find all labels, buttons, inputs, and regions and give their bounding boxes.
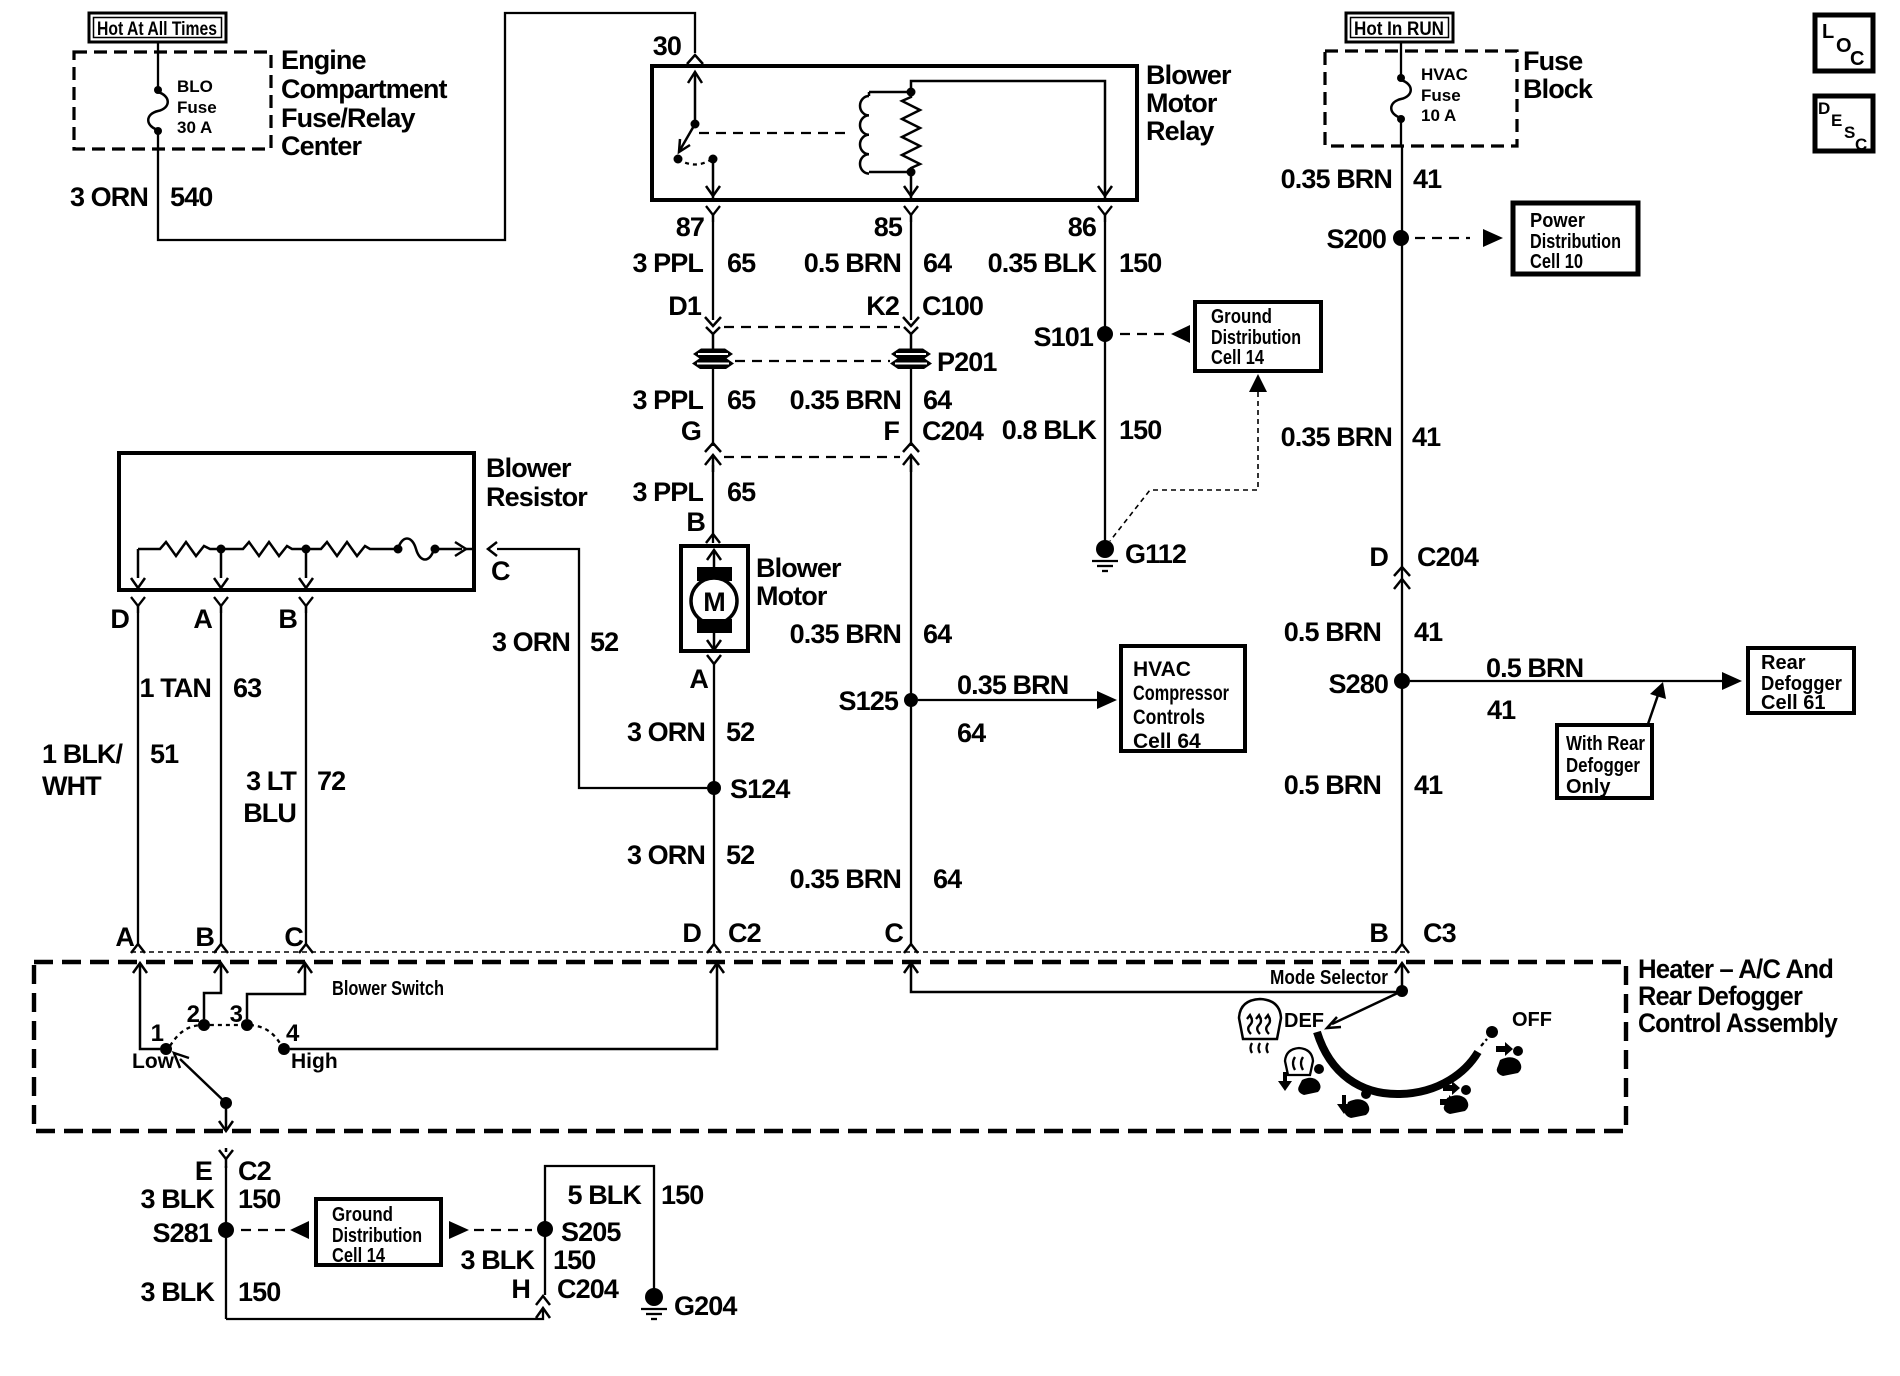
Ground Distribution Cell 14 box (upper): [1195, 302, 1321, 371]
connector C C2 (chevron): [299, 944, 313, 953]
Engine Compartment Fuse/Relay Center dashed box: [74, 52, 271, 149]
svg-text:K2: K2: [866, 291, 899, 321]
label Mode Selector: [1270, 967, 1388, 989]
label pin B / C3: [1369, 918, 1456, 948]
wire 0.5 BRN 64 (pin 85 to K2): [910, 215, 912, 320]
svg-text:H: H: [511, 1274, 530, 1304]
svg-text:Mode Selector: Mode Selector: [1270, 967, 1388, 989]
label pin G: [681, 416, 701, 446]
Heater A/C and Rear Defogger Control Assembly dashed box: [34, 962, 1626, 1131]
connector B C3 (chevron): [1395, 944, 1409, 953]
wire 3 ORN 52 (motor A to S124): [713, 664, 715, 944]
svg-text:0.35 BRN: 0.35 BRN: [1281, 422, 1392, 452]
connector A C2 (chevron): [131, 944, 145, 953]
svg-text:0.5 BRN: 0.5 BRN: [1486, 653, 1583, 683]
dashed reference ground distribution to G112: [1110, 374, 1267, 541]
svg-text:52: 52: [590, 627, 618, 657]
svg-text:Fuse: Fuse: [1421, 86, 1461, 105]
label 3 ORN 540: [70, 182, 212, 212]
label switch pin C: [284, 922, 303, 952]
svg-text:85: 85: [874, 212, 903, 242]
dashed reference ground distribution to S205: [449, 1221, 532, 1239]
svg-text:C2: C2: [238, 1156, 271, 1186]
label 0.5 BRN 41 (lower): [1284, 770, 1443, 800]
svg-text:Compressor: Compressor: [1133, 682, 1229, 705]
svg-text:B: B: [195, 922, 214, 952]
svg-text:Blower: Blower: [1146, 60, 1232, 90]
svg-text:F: F: [883, 416, 899, 446]
LOC reference box: [1815, 15, 1873, 71]
connector Y at resistor pin B: [299, 597, 313, 613]
label pin 87: [676, 212, 704, 242]
svg-text:Rear: Rear: [1761, 652, 1806, 674]
svg-text:52: 52: [726, 840, 754, 870]
arrow from With Rear Defogger Only to wire: [1648, 682, 1666, 724]
blower motor box: [681, 546, 748, 651]
svg-text:S200: S200: [1327, 224, 1386, 254]
label pin A: [689, 664, 708, 694]
label pin 30: [653, 31, 681, 61]
connector Y at pin 86: [1098, 206, 1112, 222]
svg-text:HVAC: HVAC: [1133, 658, 1191, 681]
svg-text:5 BLK: 5 BLK: [567, 1180, 642, 1210]
svg-text:C3: C3: [1423, 918, 1457, 948]
label OFF: [1512, 1009, 1552, 1031]
svg-text:3 BLK: 3 BLK: [460, 1245, 535, 1275]
svg-text:S205: S205: [561, 1217, 621, 1247]
svg-text:65: 65: [727, 385, 756, 415]
label box "Hot At All Times": [89, 13, 226, 42]
icon floor mode: [1337, 1089, 1371, 1118]
label Blower Resistor: [486, 453, 588, 512]
svg-text:0.5 BRN: 0.5 BRN: [1284, 617, 1381, 647]
label S281: [153, 1218, 213, 1248]
label S101: [1034, 322, 1094, 352]
svg-text:Distribution: Distribution: [1211, 327, 1301, 349]
svg-text:OFF: OFF: [1512, 1009, 1552, 1031]
svg-text:Controls: Controls: [1133, 706, 1205, 729]
label contact 1: [151, 1020, 164, 1047]
svg-text:30 A: 30 A: [177, 118, 212, 137]
label pin E / C2: [195, 1156, 271, 1186]
wire 1 TAN 63: [220, 606, 222, 944]
connector Y at pin 87: [706, 206, 720, 222]
svg-text:150: 150: [238, 1184, 280, 1214]
svg-text:C204: C204: [557, 1274, 619, 1304]
svg-text:87: 87: [676, 212, 704, 242]
svg-text:65: 65: [727, 477, 756, 507]
fuse BLO 30 A: [148, 42, 168, 149]
svg-text:S101: S101: [1034, 322, 1094, 352]
wire 1 BLK/WHT 51: [137, 606, 139, 944]
label 3 ORN 52: [492, 627, 618, 657]
label pin A: [193, 604, 212, 634]
svg-text:S125: S125: [839, 686, 899, 716]
svg-text:0.35 BRN: 0.35 BRN: [790, 864, 901, 894]
svg-text:3 ORN: 3 ORN: [627, 840, 705, 870]
connector at motor pin B: [706, 534, 720, 543]
resistor tap A: [214, 549, 228, 588]
svg-text:G: G: [681, 416, 701, 446]
svg-text:3 ORN: 3 ORN: [627, 717, 705, 747]
svg-text:A: A: [193, 604, 212, 634]
label 1 BLK/WHT 51: [42, 739, 179, 801]
wire 3 BLK 150 (S281 to H): [226, 1308, 543, 1319]
svg-text:3 PPL: 3 PPL: [632, 477, 703, 507]
label 0.35 BRN 41: [1281, 164, 1442, 194]
connector line C204 (dashed): [724, 456, 900, 458]
svg-text:D1: D1: [668, 291, 702, 321]
label pin D: [110, 604, 129, 634]
svg-text:S280: S280: [1329, 669, 1388, 699]
connector at resistor pin C: [488, 542, 497, 556]
wire 0.5 BRN 41 (S280 to rear defogger): [1410, 672, 1742, 690]
svg-text:1 BLK/: 1 BLK/: [42, 739, 124, 769]
label 0.35 BRN 64: [790, 385, 952, 415]
resistor element chain: [138, 539, 473, 560]
connector at motor pin A: [707, 655, 721, 664]
svg-text:BLU: BLU: [243, 798, 296, 828]
svg-text:0.35 BRN: 0.35 BRN: [790, 619, 901, 649]
label pin B: [686, 507, 705, 537]
svg-text:1: 1: [151, 1020, 164, 1047]
label contact 2: [187, 1001, 200, 1028]
svg-text:B: B: [278, 604, 297, 634]
svg-text:Cell 64: Cell 64: [1133, 730, 1201, 753]
wire 3 BLK 150 (S205 to H): [544, 1229, 546, 1295]
svg-text:E: E: [1831, 111, 1842, 130]
node S280: [1394, 673, 1410, 689]
svg-text:Power: Power: [1530, 210, 1585, 232]
switch contact 1 wire (A): [133, 963, 160, 1049]
relay coil control dashed line: [699, 132, 852, 134]
svg-text:51: 51: [150, 739, 179, 769]
label High: [291, 1050, 338, 1073]
resistor tap D: [131, 549, 145, 588]
svg-text:Hot At All Times: Hot At All Times: [97, 19, 217, 40]
svg-text:A: A: [689, 664, 708, 694]
connector symbol at pin 30: [687, 55, 703, 64]
resistor tap B: [299, 549, 313, 588]
svg-text:B: B: [1369, 918, 1388, 948]
label G204: [674, 1291, 737, 1321]
svg-text:High: High: [291, 1050, 338, 1073]
mode selector node: [1395, 963, 1409, 997]
svg-text:86: 86: [1068, 212, 1097, 242]
svg-text:41: 41: [1414, 617, 1443, 647]
svg-text:41: 41: [1487, 695, 1516, 725]
blower resistor box: [119, 453, 474, 590]
svg-text:A: A: [115, 922, 134, 952]
node S205: [537, 1221, 553, 1237]
svg-text:S281: S281: [153, 1218, 213, 1248]
svg-text:M: M: [703, 587, 725, 617]
svg-text:Blower Switch: Blower Switch: [332, 978, 444, 1000]
svg-text:3 ORN: 3 ORN: [492, 627, 570, 657]
connector line C100 (dashed): [724, 326, 900, 328]
wire 3 LT BLU 72: [305, 606, 307, 944]
label 0.35 BLK 150: [988, 248, 1162, 278]
svg-text:Motor: Motor: [1146, 88, 1218, 118]
svg-text:64: 64: [933, 864, 962, 894]
svg-text:41: 41: [1414, 770, 1443, 800]
relay U: Blower Motor Relay box: [652, 66, 1137, 200]
Power Distribution Cell 10 box: [1513, 203, 1638, 274]
svg-text:64: 64: [923, 619, 952, 649]
connector E C2 (Y): [219, 1150, 233, 1168]
connector Y at pin 85: [904, 206, 918, 222]
wire 3 BLK 150 (E to S281): [225, 1166, 227, 1319]
label BLO Fuse 30 A: [177, 77, 217, 137]
Rear Defogger Cell 61 box: [1748, 648, 1854, 714]
label Blower Motor: [756, 553, 842, 611]
svg-text:0.5 BRN: 0.5 BRN: [1284, 770, 1381, 800]
DESC reference box: [1815, 96, 1873, 154]
svg-text:Block: Block: [1523, 74, 1594, 104]
ground G112: [1092, 540, 1118, 571]
switch output wire to E: [225, 1148, 228, 1152]
svg-text:Cell 14: Cell 14: [332, 1245, 386, 1267]
connector line P201 (dashed): [735, 360, 890, 362]
svg-text:41: 41: [1413, 164, 1442, 194]
svg-text:0.5 BRN: 0.5 BRN: [804, 248, 901, 278]
svg-text:C: C: [884, 918, 903, 948]
switch contact arc (dashed): [170, 1025, 281, 1046]
svg-text:Fuse/Relay: Fuse/Relay: [281, 103, 415, 133]
label 0.35 BRN 41 (second): [1281, 422, 1441, 452]
label 0.5 BRN 64: [804, 248, 952, 278]
svg-text:41: 41: [1412, 422, 1441, 452]
wire 0.35 BLK 150 (pin 86 down): [1104, 215, 1106, 541]
label 3 ORN 52: [627, 840, 754, 870]
switch wiper arm: [174, 1053, 233, 1131]
With Rear Defogger Only box: [1557, 725, 1652, 798]
icon panel mode: [1496, 1042, 1523, 1076]
grommet P201 (right half, wire 64): [890, 349, 932, 370]
svg-text:B: B: [686, 507, 705, 537]
svg-text:G112: G112: [1125, 539, 1186, 569]
svg-text:0.35 BRN: 0.35 BRN: [957, 670, 1068, 700]
svg-text:Ground: Ground: [332, 1204, 393, 1226]
Fuse Block dashed box: [1325, 51, 1517, 146]
Ground Distribution Cell 14 box (lower): [316, 1199, 441, 1267]
svg-text:52: 52: [726, 717, 754, 747]
label Low: [132, 1050, 175, 1073]
svg-text:D: D: [110, 604, 129, 634]
svg-text:Distribution: Distribution: [1530, 231, 1621, 253]
svg-text:DEF: DEF: [1284, 1010, 1324, 1032]
svg-text:Blower: Blower: [486, 453, 572, 483]
connector D C204 (chevron + up arrow): [1394, 567, 1410, 589]
svg-text:Resistor: Resistor: [486, 482, 588, 512]
svg-text:Fuse: Fuse: [1523, 46, 1583, 76]
switch contact 3 wire (C): [247, 963, 312, 1019]
svg-text:C204: C204: [922, 416, 984, 446]
svg-text:0.35 BLK: 0.35 BLK: [988, 248, 1098, 278]
label Engine Compartment Fuse/Relay Center: [281, 45, 448, 161]
label pin H / C204: [511, 1274, 618, 1304]
svg-text:C204: C204: [1417, 542, 1479, 572]
label pin C (mode selector): [884, 918, 903, 948]
fuse HVAC 10 A: [1391, 42, 1411, 146]
connector line C2/C3 (thin dashed): [131, 951, 1408, 953]
wire 3 PPL 65 (pin 87 to D1): [712, 215, 714, 320]
svg-text:Hot In RUN: Hot In RUN: [1354, 19, 1444, 40]
svg-text:D: D: [1369, 542, 1388, 572]
svg-text:HVAC: HVAC: [1421, 65, 1468, 84]
wire 3 ORN 540 from fuse to relay pin 30: [158, 13, 695, 240]
svg-text:S: S: [1844, 123, 1855, 142]
switch contact 2 wire (B): [204, 963, 228, 1019]
label pin 86: [1068, 212, 1097, 242]
label 1 TAN 63: [139, 673, 262, 703]
switch contact dots 1-4: [160, 1019, 290, 1055]
connector D C2 (chevron): [707, 944, 721, 953]
label 3 BLK 150 (S205-H): [460, 1245, 595, 1275]
svg-text:C100: C100: [922, 291, 983, 321]
label 3 PPL 65: [632, 385, 756, 415]
svg-text:S124: S124: [730, 774, 790, 804]
svg-text:Control Assembly: Control Assembly: [1638, 1008, 1838, 1038]
wire 0.35 BRN 41 (fuse to mode selector B): [1401, 146, 1403, 944]
label pin F / C204: [883, 416, 983, 446]
svg-text:10 A: 10 A: [1421, 106, 1456, 125]
connector H C204 (chevron + up arrow): [536, 1296, 550, 1318]
label box "Hot In RUN": [1346, 13, 1453, 42]
blower motor internals: [691, 550, 737, 650]
label M (motor): [703, 587, 725, 617]
wire 3 PPL 65 (C204 to blower motor B): [712, 465, 714, 543]
label Fuse Block: [1523, 46, 1594, 104]
svg-text:4: 4: [286, 1020, 300, 1047]
wire 3 PPL 65 (P201 to C204): [712, 368, 714, 446]
relay resistor: [902, 92, 920, 172]
wire 3 ORN 52 (resistor C to S124): [497, 549, 707, 788]
svg-text:150: 150: [1119, 415, 1161, 445]
label pin C: [491, 556, 510, 586]
label 0.8 BLK 150: [1002, 415, 1162, 445]
svg-text:E: E: [195, 1156, 212, 1186]
dashed reference S200 to power distribution: [1415, 229, 1503, 247]
label D1: [668, 291, 702, 321]
label S200: [1327, 224, 1386, 254]
svg-text:BLO: BLO: [177, 77, 213, 96]
label 3 PPL 65: [632, 248, 756, 278]
svg-text:64: 64: [923, 385, 952, 415]
svg-text:150: 150: [1119, 248, 1161, 278]
node S125: [904, 693, 918, 707]
relay switch (pin 30 arm): [674, 72, 721, 200]
node S200: [1393, 230, 1409, 246]
svg-text:Low: Low: [132, 1050, 175, 1073]
label 0.35 BRN 64 (arrow wire): [957, 670, 1068, 748]
svg-text:540: 540: [170, 182, 212, 212]
svg-text:3 ORN: 3 ORN: [70, 182, 148, 212]
mode selector pointer arrow: [1327, 991, 1402, 1028]
switch contact 4 wire (D): [290, 963, 724, 1049]
label 3 BLK 150: [140, 1184, 280, 1214]
label contact 4: [286, 1020, 300, 1047]
label S280: [1329, 669, 1388, 699]
ground G204: [641, 1288, 667, 1319]
connector F C204 (chevron + up arrow): [903, 443, 919, 472]
svg-text:3 BLK: 3 BLK: [140, 1277, 215, 1307]
svg-text:Fuse: Fuse: [177, 98, 217, 117]
label DEF: [1284, 1010, 1324, 1032]
label 3 BLK 150 (lower left): [140, 1277, 280, 1307]
icon blend mode: [1440, 1081, 1471, 1114]
svg-text:150: 150: [661, 1180, 703, 1210]
wire S125 to HVAC compressor controls: [918, 691, 1117, 709]
dashed reference S281 to ground distribution: [241, 1221, 309, 1239]
svg-text:C: C: [1850, 48, 1864, 70]
svg-text:0.35 BRN: 0.35 BRN: [790, 385, 901, 415]
label P201: [937, 347, 997, 377]
label HVAC Fuse 10 A: [1421, 65, 1468, 125]
wire 5 BLK 150 (S205 to G204): [545, 1166, 654, 1291]
mode selector arc: [1317, 1026, 1498, 1094]
label 0.5 BRN 41 (horizontal wire): [1486, 653, 1583, 725]
label 3 PPL 65: [632, 477, 756, 507]
wire 0.35 BRN 64 (P201 to C204): [910, 368, 912, 446]
svg-text:P201: P201: [937, 347, 997, 377]
svg-text:Cell 10: Cell 10: [1530, 251, 1583, 273]
grommet P201 (left half, wire 65): [692, 349, 734, 370]
svg-text:Relay: Relay: [1146, 116, 1214, 146]
svg-text:Ground: Ground: [1211, 306, 1272, 328]
connector Y at resistor pin D: [131, 597, 145, 613]
svg-text:64: 64: [923, 248, 952, 278]
label Blower Motor Relay: [1146, 60, 1232, 146]
connector G C204 (chevron + up arrow): [705, 443, 721, 472]
label Heater A/C And Rear Defogger Control Assembly: [1638, 954, 1838, 1038]
svg-text:Compartment: Compartment: [281, 74, 448, 104]
svg-text:1 TAN: 1 TAN: [139, 673, 211, 703]
label S124: [730, 774, 790, 804]
icon defrost (DEF): [1239, 999, 1281, 1053]
svg-text:D: D: [682, 918, 701, 948]
svg-text:Cell 61: Cell 61: [1761, 692, 1825, 714]
svg-text:D: D: [1818, 99, 1830, 118]
svg-text:65: 65: [727, 248, 756, 278]
svg-text:C: C: [1855, 135, 1867, 154]
relay internal wiring: [869, 81, 1112, 200]
svg-text:72: 72: [317, 766, 345, 796]
svg-text:63: 63: [233, 673, 262, 703]
connector K2 C100 (arrow + Y): [903, 317, 919, 350]
svg-text:0.35 BRN: 0.35 BRN: [1281, 164, 1392, 194]
label 5 BLK 150: [567, 1180, 703, 1210]
label 3 LT BLU 72: [243, 766, 345, 828]
label 0.5 BRN 41: [1284, 617, 1443, 647]
svg-text:Engine: Engine: [281, 45, 366, 75]
svg-text:L: L: [1822, 21, 1834, 43]
svg-text:2: 2: [187, 1001, 200, 1028]
mode selector feed wire (from C): [904, 963, 1402, 992]
svg-text:Center: Center: [281, 131, 363, 161]
connector Y at resistor pin A: [214, 597, 228, 613]
svg-text:Distribution: Distribution: [332, 1225, 422, 1247]
svg-text:Heater – A/C And: Heater – A/C And: [1638, 954, 1833, 984]
label S205: [561, 1217, 621, 1247]
label pin B: [278, 604, 297, 634]
svg-text:Cell 14: Cell 14: [1211, 347, 1265, 369]
node S124: [707, 781, 721, 795]
svg-text:Blower: Blower: [756, 553, 842, 583]
dashed reference S101 to ground distribution: [1120, 325, 1190, 343]
svg-text:150: 150: [553, 1245, 595, 1275]
HVAC Compressor Controls Cell 64 box: [1121, 646, 1245, 753]
